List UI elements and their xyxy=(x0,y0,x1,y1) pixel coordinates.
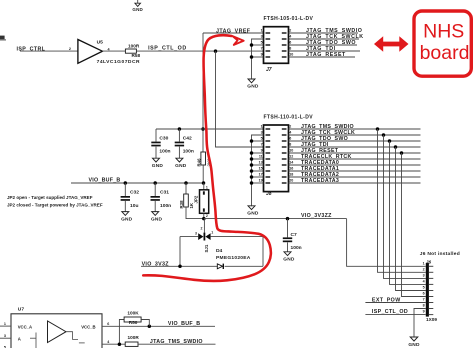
svg-text:C30: C30 xyxy=(159,135,168,141)
svg-text:VCC_B: VCC_B xyxy=(81,325,95,330)
svg-text:GND: GND xyxy=(121,216,133,222)
svg-text:16: 16 xyxy=(289,166,293,170)
svg-text:1: 1 xyxy=(206,186,208,190)
svg-text:C7: C7 xyxy=(291,232,298,238)
svg-text:1: 1 xyxy=(261,124,263,128)
svg-text:1: 1 xyxy=(261,28,263,32)
svg-text:3: 3 xyxy=(261,130,263,134)
svg-text:U5: U5 xyxy=(97,40,104,46)
svg-text:74LVC1G07DCR: 74LVC1G07DCR xyxy=(97,59,140,65)
svg-text:15: 15 xyxy=(259,166,263,170)
svg-text:J6 Not installed: J6 Not installed xyxy=(420,251,460,257)
svg-text:VIO_BUF_B: VIO_BUF_B xyxy=(89,177,121,183)
svg-text:JTAG_TMS_SWDIO: JTAG_TMS_SWDIO xyxy=(150,339,203,345)
svg-text:4: 4 xyxy=(289,130,291,134)
svg-text:D4: D4 xyxy=(216,248,223,254)
svg-text:J6: J6 xyxy=(426,259,432,264)
svg-text:VIO_BUF_B: VIO_BUF_B xyxy=(168,321,200,327)
svg-text:2: 2 xyxy=(289,124,291,128)
svg-text:ISP_CTL_OD: ISP_CTL_OD xyxy=(148,46,187,52)
svg-text:3: 3 xyxy=(261,34,263,38)
svg-text:100n: 100n xyxy=(159,149,170,155)
svg-text:6: 6 xyxy=(289,40,291,44)
svg-text:100n: 100n xyxy=(291,245,302,251)
svg-text:9: 9 xyxy=(423,310,425,314)
svg-text:19: 19 xyxy=(259,178,263,182)
svg-text:GND: GND xyxy=(152,163,164,169)
svg-text:EXT_POW: EXT_POW xyxy=(372,298,401,304)
svg-text:ISP_CTL_OD: ISP_CTL_OD xyxy=(372,309,408,315)
svg-text:JP2: JP2 xyxy=(193,195,198,203)
svg-text:8: 8 xyxy=(423,304,425,308)
svg-text:6: 6 xyxy=(423,292,425,296)
svg-text:2: 2 xyxy=(423,267,425,271)
svg-text:100K: 100K xyxy=(127,311,139,316)
svg-text:2: 2 xyxy=(206,214,208,218)
svg-text:3: 3 xyxy=(195,231,197,235)
svg-text:20: 20 xyxy=(289,178,293,182)
svg-text:R50: R50 xyxy=(129,320,138,325)
svg-text:VIO_3V3ZZ: VIO_3V3ZZ xyxy=(301,213,332,219)
svg-text:1: 1 xyxy=(211,230,213,234)
svg-text:1X09: 1X09 xyxy=(426,317,437,322)
svg-text:GND: GND xyxy=(247,84,259,90)
svg-text:100R: 100R xyxy=(128,43,140,48)
svg-text:13: 13 xyxy=(259,160,263,164)
svg-text:R58: R58 xyxy=(132,53,141,58)
svg-text:5: 5 xyxy=(423,286,425,290)
svg-text:FTSH-110-01-L-DV: FTSH-110-01-L-DV xyxy=(264,114,314,120)
svg-text:JTAG_RESET: JTAG_RESET xyxy=(306,52,346,58)
svg-text:SJ1: SJ1 xyxy=(204,244,209,252)
svg-text:4: 4 xyxy=(423,279,425,283)
svg-text:PMEG1020EA: PMEG1020EA xyxy=(216,255,251,261)
svg-text:8: 8 xyxy=(289,46,291,50)
svg-text:VCC_A: VCC_A xyxy=(18,325,32,330)
svg-text:5: 5 xyxy=(261,136,263,140)
svg-text:10: 10 xyxy=(289,52,293,56)
svg-text:8: 8 xyxy=(289,142,291,146)
svg-text:14: 14 xyxy=(289,160,293,164)
svg-text:2: 2 xyxy=(200,226,202,230)
svg-text:C32: C32 xyxy=(130,190,139,196)
svg-text:R46: R46 xyxy=(197,158,202,167)
svg-text:7: 7 xyxy=(261,142,263,146)
svg-text:3: 3 xyxy=(423,273,425,277)
svg-text:4: 4 xyxy=(289,34,291,38)
svg-text:6: 6 xyxy=(289,136,291,140)
svg-text:GND: GND xyxy=(408,342,420,348)
svg-text:GND: GND xyxy=(283,257,295,263)
svg-text:VIO_3V3Z: VIO_3V3Z xyxy=(142,261,170,267)
svg-text:17: 17 xyxy=(259,172,263,176)
svg-text:NHS: NHS xyxy=(423,21,464,43)
svg-text:100n: 100n xyxy=(183,149,194,155)
svg-text:GND: GND xyxy=(132,7,143,12)
svg-text:11: 11 xyxy=(259,154,263,158)
svg-text:GND: GND xyxy=(151,216,163,222)
svg-text:GND: GND xyxy=(247,211,259,217)
svg-text:2: 2 xyxy=(69,47,71,51)
svg-text:JP2 closed - Target powered by: JP2 closed - Target powered by JTAG_VREF xyxy=(7,202,103,207)
svg-text:J7: J7 xyxy=(266,67,272,73)
svg-text:JP2 open - Target supplied JTA: JP2 open - Target supplied JTAG_VREF xyxy=(7,195,93,200)
svg-text:TRACEDATA3: TRACEDATA3 xyxy=(301,178,339,184)
svg-text:board: board xyxy=(420,42,470,64)
svg-text:R38: R38 xyxy=(179,200,184,209)
svg-text:10: 10 xyxy=(289,148,293,152)
svg-text:FTSH-105-01-L-DV: FTSH-105-01-L-DV xyxy=(264,16,314,22)
svg-text:C42: C42 xyxy=(183,135,192,141)
svg-text:100n: 100n xyxy=(160,203,171,209)
svg-text:5: 5 xyxy=(261,40,263,44)
svg-text:3: 3 xyxy=(4,334,6,338)
svg-text:GND: GND xyxy=(175,163,187,169)
svg-text:18: 18 xyxy=(289,172,293,176)
svg-text:9: 9 xyxy=(261,148,263,152)
svg-text:C31: C31 xyxy=(160,190,169,196)
svg-text:1: 1 xyxy=(4,322,6,326)
svg-text:A: A xyxy=(18,337,21,342)
svg-text:7: 7 xyxy=(423,298,425,302)
svg-text:12: 12 xyxy=(289,154,293,158)
svg-text:2: 2 xyxy=(289,28,291,32)
svg-text:6: 6 xyxy=(107,322,109,326)
svg-text:1: 1 xyxy=(423,261,425,265)
svg-text:100R: 100R xyxy=(128,335,140,340)
svg-text:7: 7 xyxy=(261,46,263,50)
svg-text:J8: J8 xyxy=(266,191,272,197)
svg-text:9: 9 xyxy=(261,52,263,56)
svg-text:U7: U7 xyxy=(18,307,25,313)
svg-text:10u: 10u xyxy=(130,203,138,209)
